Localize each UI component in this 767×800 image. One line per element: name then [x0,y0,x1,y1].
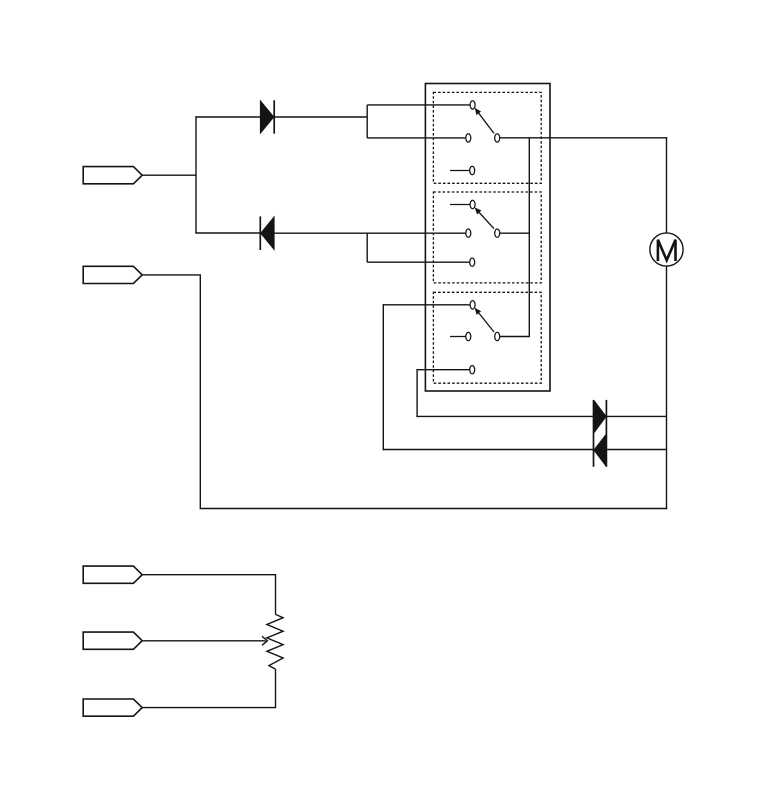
wire vertical x417 down [416,369,418,417]
wire bottom return run [200,508,667,510]
diode D1 [260,100,274,133]
wire to D3 (upper run) [416,415,593,417]
terminal J2 [83,266,142,283]
wire D1 cathode to staple1 [274,116,367,118]
switch block outer box [425,84,550,392]
switch S3 contact common left [466,332,471,340]
switch S3 contact right [495,332,500,340]
switch S2 contact top [470,200,475,208]
terminal J1 [83,167,142,184]
wire S3 right contact to bus B [500,336,530,338]
switch S3 dashed box [433,292,541,383]
wire S3 top contact left run [383,304,470,306]
wire S3 bottom contact left run [417,369,469,371]
switch S3 contact bottom [470,366,475,374]
wire R1 bottom to J5 [142,669,275,708]
switch S2 dashed box [433,192,541,283]
wire staple2 to S2 lower contact [367,261,469,263]
wire motor top lead [666,137,668,233]
wire node A to D2 cathode [195,232,260,234]
wire vertical x383 down [382,304,384,450]
wire left return vertical [199,275,201,509]
wire J4 wiper shaft [142,640,265,642]
wire node A to D1 anode [195,116,260,118]
switch S2 lever [475,207,494,228]
switch S1 contact right [495,134,500,142]
resistor R1 zigzag [267,614,283,669]
switch S1 lever [475,108,494,134]
wire staple2 vertical [366,233,368,262]
wire J3 to R1 top [142,575,275,615]
wire D2 anode to S2 common contact [274,232,466,234]
wire to D4 (lower run) [383,449,594,451]
terminal J4 [83,632,142,649]
switch S1 contact top [470,101,475,109]
wire D3 to motor branch [606,415,666,417]
switch S3 lever [475,308,494,332]
wire to J2 [142,274,201,276]
switch S2 contact bottom [470,258,475,266]
wire staple1 vertical [366,105,368,138]
switch S3 unused-contact stub wire [450,336,466,338]
wire staple1 to S1 upper contact [367,104,470,106]
terminal J3 [83,566,142,583]
wire motor bottom lead [666,266,668,509]
diode D2 [260,216,274,250]
wire S2 right contact to bus B [500,232,529,234]
wire J1 to junction A [142,174,196,176]
node A branch vertical [195,116,197,233]
switch S2 unused-contact stub wire [450,204,470,206]
wire bus B vertical (ties right contacts) [528,138,530,337]
wire staple1 to S1 common contact [367,137,465,139]
wire D4 to motor branch [606,449,666,451]
switch S3 contact top [470,301,475,309]
wiper arrowhead [262,636,267,645]
diode D4 [594,400,607,467]
motor M1 [650,233,683,266]
diode D3 [594,400,606,467]
terminal J5 [83,699,142,716]
switch S1 contact bottom [470,166,475,174]
wire S1 right contact to motor (top run) [500,137,667,139]
switch S1 unused-contact stub wire [450,170,470,172]
switch S1 dashed box [433,92,541,183]
switch S2 contact common left [466,229,471,237]
switch S1 contact common left [466,134,471,142]
switch S2 contact right [495,229,500,237]
